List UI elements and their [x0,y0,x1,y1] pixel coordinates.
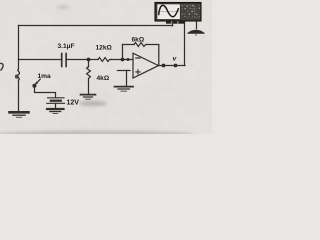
wire: non-inverting input stub [118,70,131,72]
wire: left rail below source to ground [18,80,20,111]
scope ground probe umbrella [187,30,204,34]
oscilloscope XSC1 body [155,3,205,36]
svg-text:12V: 12V [67,100,80,107]
node junction on output (scope tap) [174,64,178,68]
op-amp U1 triangle [133,53,159,78]
node dot at arrow tip [32,84,36,88]
op-amp plus sign [136,70,140,74]
node junction on output (feedback) [162,64,166,68]
node junction at op-amp input [127,58,130,61]
battery V1 plates [48,97,65,99]
wire: 4k to ground [88,81,90,94]
wire: middle rail to capacitor [19,59,61,61]
labels [38,37,178,107]
oscilloscope front-panel knobs/dots [182,5,201,18]
resistor R2 4kOhm (vertical zigzag) [87,67,91,81]
wire: branch down to 4k [88,60,90,68]
wire: left vertical rail [18,26,20,70]
left-edge stray mark [0,63,3,70]
faint smudge top middle [56,5,70,9]
ground (under 4k) [81,94,96,96]
paper background [0,0,212,134]
svg-text:1ma: 1ma [38,73,52,80]
oscilloscope screen with sine trace [157,4,180,19]
ground (left rail) [10,111,29,114]
current source IS (squiggle symbol on left rail) [18,69,20,80]
wire: 12k to op-amp inverting input [112,59,134,61]
wire: battery to ground [55,104,57,109]
wire: feedback up leg [122,45,124,60]
wire: feedback top left segment [123,44,135,46]
wire: scope lead B down to output node [184,21,186,66]
node junction feedback tap [121,58,125,62]
op-amp minus sign [136,57,140,59]
current arrow for 1ma annotation [36,79,41,84]
scope ground probe lead [196,21,198,29]
ground (battery) [47,108,64,110]
capacitor C1 3.1uF plates [61,54,63,67]
ground (op-amp + input) [115,86,134,88]
wire: capacitor to 12k resistor [67,59,98,61]
wire: feedback top right segment and down leg to output [147,45,159,66]
oscilloscope bottom terminals [166,21,185,24]
svg-text:12kΩ: 12kΩ [96,45,113,52]
wire: + input down to ground [126,71,128,86]
svg-text:4kΩ: 4kΩ [97,75,110,82]
bottom-edge scan smudge [0,131,195,139]
smudge right of 12V label [79,101,107,106]
wire: node down and right to battery [35,86,56,98]
resistor RF 6kOhm (feedback zigzag) [134,43,147,47]
wire: op-amp output [158,65,185,67]
wire: scope terminal A drop [172,21,174,26]
svg-text:3.1µF: 3.1µF [58,43,75,50]
node junction at 4k branch [87,58,91,62]
svg-text:6kΩ: 6kΩ [132,37,145,44]
resistor R1 12kOhm (horizontal zigzag) [98,58,112,62]
wire: top rail from input node to scope terminal A [19,25,173,27]
